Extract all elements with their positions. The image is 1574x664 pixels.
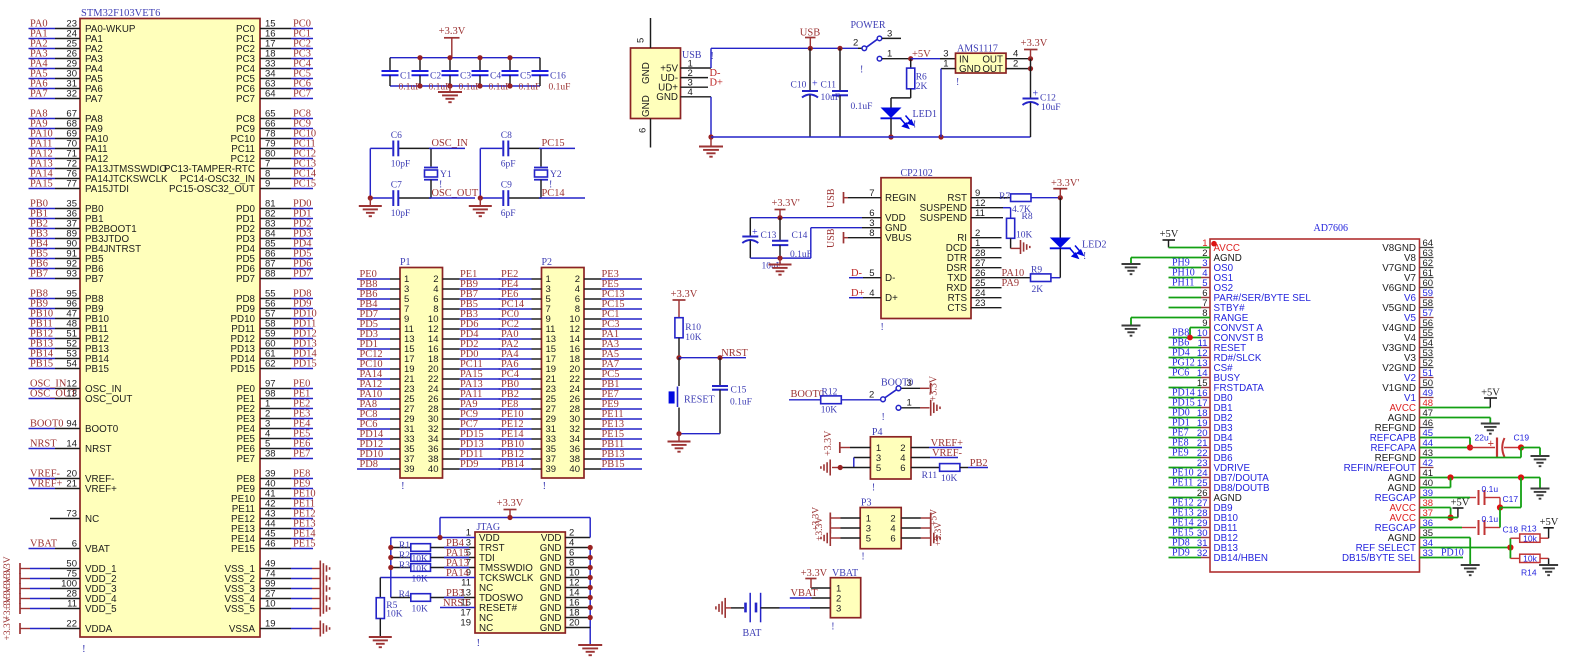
wire GND pin bbox=[565, 627, 590, 629]
svg-text:PB7: PB7 bbox=[85, 274, 104, 285]
svg-text:0.1uF: 0.1uF bbox=[851, 102, 873, 112]
wire frame of Y2 oscillator bbox=[479, 148, 481, 198]
pin PD15 / wire PD15 (pin 62) bbox=[260, 368, 291, 370]
power +3.3V / pin VDDA (pin 22) bbox=[20, 628, 30, 630]
svg-text:VBUS: VBUS bbox=[885, 233, 912, 244]
svg-text:USB: USB bbox=[826, 228, 837, 248]
pin 34 wire PE15 bbox=[584, 438, 601, 440]
svg-text:R10: R10 bbox=[685, 323, 701, 333]
pin 28 wire PA9 bbox=[443, 408, 460, 410]
capacitor C9 6pF bbox=[502, 190, 504, 206]
svg-text:Y2: Y2 bbox=[550, 170, 562, 180]
pin 25 wire PB2 bbox=[499, 398, 532, 400]
resistor R1 10K bbox=[391, 547, 411, 549]
IC U3 CP2102 body bbox=[881, 178, 971, 319]
resistor R6 2K bbox=[910, 59, 912, 68]
pin 5 wire PB6 bbox=[357, 298, 390, 300]
ground / pin VSS_1 (pin 49) bbox=[260, 568, 291, 570]
svg-text:PE15: PE15 bbox=[231, 544, 256, 555]
wire RTS pin24 stub bbox=[971, 297, 1002, 299]
pushbutton RESET bbox=[678, 358, 680, 386]
pin 11 wire PD5 bbox=[357, 328, 390, 330]
svg-text:5: 5 bbox=[876, 463, 881, 474]
pin PA9 / wire PA9 (pin 68) bbox=[29, 128, 56, 130]
svg-text:+3.3V': +3.3V' bbox=[1051, 178, 1079, 189]
svg-text:PB7: PB7 bbox=[30, 269, 48, 280]
capacitor C15 0.1uF bbox=[719, 358, 721, 386]
svg-text:+3.3V: +3.3V bbox=[671, 289, 698, 300]
net label VREF- P4 pin4 bbox=[911, 457, 930, 459]
svg-text:0.1uF: 0.1uF bbox=[549, 83, 571, 93]
ground / pin VSS_4 (pin 27) bbox=[260, 598, 291, 600]
svg-text:5: 5 bbox=[636, 38, 647, 43]
svg-text:6: 6 bbox=[638, 128, 649, 133]
resistor R12 10K bbox=[821, 396, 842, 404]
pin 1 wire PE0 bbox=[357, 278, 390, 280]
svg-text:6: 6 bbox=[72, 539, 77, 550]
svg-text:0.1u: 0.1u bbox=[1482, 514, 1499, 524]
pin PA3 / wire PA3 (pin 26) bbox=[29, 58, 56, 60]
pin PD10 / wire PD10 (pin 57) bbox=[260, 318, 291, 320]
pin PC13-TAMPER-RTC / wire PC13 (pin 7) bbox=[260, 168, 291, 170]
wire P3 right bbox=[901, 537, 921, 539]
svg-text:!: ! bbox=[861, 552, 864, 563]
svg-text:PE9: PE9 bbox=[1172, 448, 1189, 459]
pin PE14 / wire PE14 (pin 45) bbox=[260, 538, 291, 540]
capacitor C16 0.1uF bbox=[539, 58, 541, 71]
pin PD3 / wire PD3 (pin 84) bbox=[260, 238, 291, 240]
svg-text:11: 11 bbox=[67, 599, 77, 610]
pin PB5 / wire PB5 (pin 91) bbox=[29, 258, 56, 260]
pin NC / wire NC (pin 73) bbox=[50, 518, 80, 520]
pin PD0 / wire PD0 (pin 81) bbox=[260, 208, 291, 210]
wire GND pin bbox=[565, 587, 590, 589]
svg-text:19: 19 bbox=[460, 618, 471, 629]
connector USB body bbox=[631, 48, 681, 119]
svg-text:+5V: +5V bbox=[1451, 498, 1470, 509]
pin PA12 / wire PA12 (pin 71) bbox=[29, 158, 56, 160]
svg-text:PD9: PD9 bbox=[1172, 548, 1190, 559]
pin PB7 / wire PB7 (pin 93) bbox=[29, 278, 56, 280]
pin 20 wire PC11 bbox=[443, 368, 460, 370]
wire OUT column bbox=[1030, 59, 1032, 99]
svg-text:VDDA: VDDA bbox=[85, 624, 113, 635]
svg-text:40: 40 bbox=[569, 464, 580, 475]
wire AVCC pin38 to +5V bbox=[1420, 507, 1451, 509]
pin 15 wire PA2 bbox=[499, 348, 532, 350]
pin PA0-WKUP / wire PA0 (pin 23) bbox=[29, 28, 56, 30]
red pin stubs AD7606 right side bbox=[1420, 407, 1429, 409]
wire GND pin3 bbox=[810, 228, 812, 258]
capacitor C18 0.1u bbox=[1420, 527, 1463, 529]
svg-text:10K: 10K bbox=[412, 575, 429, 585]
pin 21 wire PA14 bbox=[357, 378, 390, 380]
svg-text:OUT: OUT bbox=[982, 64, 1003, 75]
svg-text:!: ! bbox=[860, 65, 863, 76]
wire RANGE pin8 to ground bbox=[1131, 317, 1210, 319]
resistor R3 10K bbox=[391, 567, 411, 569]
pin 4 wire PE5 bbox=[584, 288, 601, 290]
pin 13 wire PA0 bbox=[499, 338, 532, 340]
svg-text:!: ! bbox=[1083, 251, 1086, 262]
svg-text:!: ! bbox=[872, 483, 875, 494]
svg-text:+5V: +5V bbox=[1160, 229, 1179, 240]
pin 9 wire PD7 bbox=[357, 318, 390, 320]
svg-text:94: 94 bbox=[66, 419, 77, 430]
svg-text:GND: GND bbox=[656, 92, 678, 103]
pin PA6 / wire PA6 (pin 31) bbox=[29, 88, 56, 90]
pin 4 wire PB9 bbox=[443, 288, 460, 290]
svg-text:PA15: PA15 bbox=[30, 179, 53, 190]
svg-text:R7: R7 bbox=[999, 192, 1010, 202]
svg-text:RESET: RESET bbox=[684, 395, 715, 406]
pin 28 wire PE9 bbox=[584, 408, 601, 410]
pin 10 wire PB3 bbox=[443, 318, 460, 320]
wire P3 left bbox=[831, 517, 841, 519]
pin PD6 / wire PD6 (pin 87) bbox=[260, 268, 291, 270]
svg-text:10K: 10K bbox=[412, 605, 429, 615]
svg-text:!: ! bbox=[401, 480, 405, 492]
wire SUSPEND pin12 to R8 bbox=[971, 207, 1003, 209]
svg-text:C8: C8 bbox=[501, 131, 512, 141]
pin 31 wire PC6 bbox=[357, 428, 390, 430]
wire REFGND pin43 bbox=[1420, 457, 1522, 459]
pin PA2 / wire PA2 (pin 25) bbox=[29, 48, 56, 50]
svg-text:!: ! bbox=[543, 480, 547, 492]
svg-text:10K: 10K bbox=[412, 565, 429, 575]
pin PA1 / wire PA1 (pin 24) bbox=[29, 38, 56, 40]
svg-text:VSS_5: VSS_5 bbox=[224, 604, 255, 615]
pin PE11 / wire PE11 (pin 42) bbox=[260, 508, 291, 510]
ground P3 pin5 bbox=[829, 530, 831, 546]
USB shell pin 5 bbox=[650, 18, 652, 48]
svg-text:PC7: PC7 bbox=[236, 94, 255, 105]
svg-text:+3.3V: +3.3V bbox=[3, 616, 13, 640]
resistor R5 10K bbox=[379, 578, 381, 598]
wire VDD pin2 to +3.3V bus bbox=[565, 537, 590, 539]
pin PD12 / wire PD12 (pin 59) bbox=[260, 338, 291, 340]
wire P3 right bbox=[901, 517, 921, 519]
svg-text:PD8: PD8 bbox=[360, 459, 378, 470]
pin 2 wire PE1 bbox=[443, 278, 460, 280]
pin 3 wire PE4 bbox=[499, 288, 532, 290]
pin 35 wire PD12 bbox=[357, 448, 390, 450]
svg-text:1: 1 bbox=[887, 49, 892, 60]
svg-text:PA7: PA7 bbox=[30, 89, 48, 100]
pin PD2 / wire PD2 (pin 83) bbox=[260, 228, 291, 230]
pin PB15 / wire PB15 (pin 54) bbox=[29, 368, 56, 370]
svg-text:R8: R8 bbox=[1022, 212, 1033, 222]
wire USB GND bbox=[681, 96, 712, 98]
svg-text:CTS: CTS bbox=[947, 303, 967, 314]
wire P3 left bbox=[831, 527, 841, 529]
svg-text:9: 9 bbox=[265, 179, 270, 190]
wire P3 left bbox=[831, 537, 841, 539]
svg-text:2: 2 bbox=[1013, 58, 1018, 69]
capacitor C5 0.1uF bbox=[509, 58, 511, 71]
svg-text:1: 1 bbox=[907, 398, 912, 409]
wire VDD bus bbox=[750, 217, 862, 219]
net label VREF+ P4 pin2 bbox=[911, 447, 929, 449]
pin PC14-OSC32_IN / wire PC14 (pin 8) bbox=[260, 178, 291, 180]
svg-text:73: 73 bbox=[66, 509, 77, 520]
pin PE4 / wire PE4 (pin 3) bbox=[260, 428, 291, 430]
pin PA11 / wire PA11 (pin 70) bbox=[29, 148, 56, 150]
capacitor C8 6pF bbox=[502, 141, 504, 157]
svg-text:+: + bbox=[812, 79, 818, 90]
pin 24 wire PB1 bbox=[584, 388, 601, 390]
wire CONVST A pin9 join PB8 bbox=[1190, 327, 1210, 329]
pin 18 wire PA5 bbox=[584, 358, 601, 360]
pin BOOT0 / wire BOOT0 (pin 94) bbox=[29, 428, 56, 430]
pin 24 wire PA13 bbox=[443, 388, 460, 390]
wire USB +5V bbox=[681, 67, 712, 69]
capacitor C3 0.1uF bbox=[449, 58, 451, 71]
pin 12 wire PD6 bbox=[443, 328, 460, 330]
pin stubs AD7606 right side unwired pins bbox=[1420, 247, 1434, 249]
ground JTAG bbox=[578, 644, 602, 646]
pin 31 wire PE12 bbox=[499, 428, 532, 430]
pin PD8 / wire PD8 (pin 55) bbox=[260, 298, 291, 300]
svg-text:PB2: PB2 bbox=[970, 458, 988, 469]
wire switch pin1 to +5V bbox=[882, 58, 911, 60]
wire GND pin bbox=[565, 557, 590, 559]
svg-text:39: 39 bbox=[546, 464, 557, 475]
capacitor C11 0.1uF bbox=[839, 48, 841, 91]
pin PE13 / wire PE13 (pin 44) bbox=[260, 528, 291, 530]
svg-text:3: 3 bbox=[836, 603, 841, 614]
svg-text:C19: C19 bbox=[1514, 433, 1530, 443]
pin PC10 / wire PC10 (pin 78) bbox=[260, 138, 291, 140]
svg-text:C4: C4 bbox=[490, 72, 501, 82]
wire AGND pin40 bbox=[1420, 487, 1451, 489]
svg-text:40: 40 bbox=[428, 464, 439, 475]
svg-text:PB15: PB15 bbox=[30, 359, 53, 370]
svg-text:0.1uF: 0.1uF bbox=[459, 83, 481, 93]
svg-text:PC15: PC15 bbox=[542, 138, 565, 149]
svg-text:D+: D+ bbox=[710, 78, 724, 89]
wire switch pin3 to +3.3V bbox=[902, 387, 921, 389]
svg-text:STM32F103VET6: STM32F103VET6 bbox=[81, 8, 160, 19]
pin 7 wire PC14 bbox=[499, 308, 532, 310]
wire R12 to switch bbox=[841, 399, 880, 401]
svg-text:77: 77 bbox=[66, 179, 77, 190]
pin 38 wire PD11 bbox=[443, 458, 460, 460]
pin PE10 / wire PE10 (pin 41) bbox=[260, 498, 291, 500]
pin 33 wire PD14 bbox=[357, 438, 390, 440]
svg-text:VDD_5: VDD_5 bbox=[85, 604, 117, 615]
svg-text:+3.3V: +3.3V bbox=[497, 498, 524, 509]
svg-text:GND: GND bbox=[959, 64, 981, 75]
pin PC9 / wire PC9 (pin 66) bbox=[260, 128, 291, 130]
svg-text:C11: C11 bbox=[821, 81, 837, 91]
svg-text:BOOT0: BOOT0 bbox=[791, 389, 824, 400]
svg-text:R11: R11 bbox=[922, 471, 938, 481]
capacitor C17 0.1u bbox=[1420, 497, 1471, 499]
connector P2 body bbox=[542, 268, 585, 479]
power +5V port above R13 bbox=[1548, 528, 1550, 538]
capacitor C1 0.1uF bbox=[389, 58, 391, 71]
svg-text:+3.3V: +3.3V bbox=[934, 522, 944, 546]
svg-text:GND: GND bbox=[641, 62, 652, 84]
ground / pin VSSA (pin 19) bbox=[260, 628, 291, 630]
svg-text:PA15JTDI: PA15JTDI bbox=[85, 184, 129, 195]
svg-text:C17: C17 bbox=[1503, 494, 1519, 504]
pin 6 wire PB7 bbox=[443, 298, 460, 300]
pin PD5 / wire PD5 (pin 86) bbox=[260, 258, 291, 260]
pin PB14 / wire PB14 (pin 53) bbox=[29, 358, 56, 360]
pin PE15 / wire PE15 (pin 46) bbox=[260, 548, 291, 550]
pin PB9 / wire PB9 (pin 96) bbox=[29, 308, 56, 310]
wire AGND pin2 to ground bbox=[1131, 257, 1210, 259]
pin 7 wire PB4 bbox=[357, 308, 390, 310]
svg-text:P2: P2 bbox=[542, 257, 553, 268]
crystal Y1 bbox=[430, 148, 432, 166]
svg-text:CP2102: CP2102 bbox=[901, 168, 933, 179]
wire DB15/BYTE SEL pin33 / net PD10 bbox=[1420, 557, 1464, 559]
pin PC4 / wire PC4 (pin 33) bbox=[260, 68, 291, 70]
svg-text:R13: R13 bbox=[1521, 524, 1537, 534]
power +3.3V / pin VDD_1 (pin 50) bbox=[20, 568, 30, 570]
svg-text:PC6: PC6 bbox=[1172, 368, 1189, 379]
svg-text:0.1uF: 0.1uF bbox=[429, 83, 451, 93]
pin 33 wire PE14 bbox=[499, 438, 532, 440]
power +5V port P3 pin2 bbox=[930, 513, 932, 524]
svg-text:P3: P3 bbox=[861, 498, 872, 509]
pin 35 wire PB10 bbox=[499, 448, 532, 450]
pin PC7 / wire PC7 (pin 64) bbox=[260, 98, 291, 100]
svg-text:PB15: PB15 bbox=[85, 364, 110, 375]
svg-text:10K: 10K bbox=[386, 610, 403, 620]
wire AGND pin41 bbox=[1420, 477, 1541, 479]
wire +5V rail bbox=[711, 47, 858, 49]
svg-text:46: 46 bbox=[265, 539, 276, 550]
junction and ground bbox=[368, 195, 373, 200]
pin 32 wire PC7 bbox=[443, 428, 460, 430]
svg-text:OSC_IN: OSC_IN bbox=[432, 138, 469, 149]
svg-text:C1: C1 bbox=[400, 72, 411, 82]
svg-text:VREF-: VREF- bbox=[932, 448, 963, 459]
pin PE1 / wire PE1 (pin 98) bbox=[260, 398, 291, 400]
pin PA10 / wire PA10 (pin 69) bbox=[29, 138, 56, 140]
svg-text:10: 10 bbox=[265, 599, 276, 610]
pin PA15JTDI / wire PA15 (pin 77) bbox=[29, 188, 56, 190]
regulator U2 AMS1117 body bbox=[956, 53, 1007, 73]
crystal Y2 bbox=[540, 148, 542, 166]
power +3.3V port P4 pin1 bbox=[840, 447, 850, 449]
pin PC0 / wire PC0 (pin 15) bbox=[260, 28, 291, 30]
wire/net D- bbox=[681, 77, 709, 79]
svg-text:39: 39 bbox=[404, 464, 415, 475]
pin PC5 / wire PC5 (pin 34) bbox=[260, 78, 291, 80]
pin 1 wire PE2 bbox=[499, 278, 532, 280]
svg-text:+: + bbox=[1033, 89, 1039, 100]
svg-text:PE15: PE15 bbox=[293, 539, 316, 550]
wire switch pin1 to ground bbox=[902, 407, 921, 409]
wire/net D+ bbox=[681, 86, 709, 88]
svg-text:2: 2 bbox=[869, 390, 874, 401]
power +3.3V / pin VDD_3 (pin 100) bbox=[20, 588, 30, 590]
capacitor C14 0.1uF bbox=[779, 218, 781, 241]
wire CTS pin23 stub bbox=[971, 307, 1002, 309]
svg-text:38: 38 bbox=[265, 449, 276, 460]
junction bbox=[507, 55, 512, 60]
power +3.3V / pin VDD_5 (pin 11) bbox=[20, 608, 30, 610]
IC U4 AD7606 body bbox=[1210, 239, 1420, 572]
pin PB6 / wire PB6 (pin 92) bbox=[29, 268, 56, 270]
wire DCD pin1 stub bbox=[971, 247, 1002, 249]
svg-text:14: 14 bbox=[66, 439, 77, 450]
pin 14 wire PA1 bbox=[584, 338, 601, 340]
svg-text:PC7: PC7 bbox=[293, 89, 311, 100]
svg-text:0.1uF: 0.1uF bbox=[399, 83, 421, 93]
wire REFCAPB pin45 bbox=[1420, 437, 1471, 439]
svg-text:10K: 10K bbox=[685, 333, 702, 343]
svg-text:!: ! bbox=[882, 412, 885, 423]
svg-text:NRST: NRST bbox=[85, 444, 112, 455]
svg-text:GND: GND bbox=[641, 95, 652, 117]
pin 16 wire PA3 bbox=[584, 348, 601, 350]
pin 39 wire PD8 bbox=[357, 468, 390, 470]
pin 23 wire PA12 bbox=[357, 388, 390, 390]
svg-text:R9: R9 bbox=[1031, 265, 1042, 275]
connector VBAT body bbox=[830, 578, 860, 618]
pin 34 wire PD15 bbox=[443, 438, 460, 440]
pin 5 wire PE6 bbox=[499, 298, 532, 300]
resistor R9 2K bbox=[1031, 274, 1051, 282]
svg-text:DB15/BYTE SEL: DB15/BYTE SEL bbox=[1342, 553, 1417, 564]
net label PB2 bbox=[960, 467, 968, 469]
wire AGND pin35 to ground bbox=[1420, 537, 1471, 539]
pin 27 wire PE8 bbox=[499, 408, 532, 410]
power +3.3V port P3 pin4 bbox=[930, 523, 932, 534]
pin 19 wire PC10 bbox=[357, 368, 390, 370]
ground below R5 bbox=[369, 636, 392, 638]
resistor R8 10K bbox=[1007, 218, 1015, 238]
svg-text:93: 93 bbox=[66, 269, 77, 280]
svg-text:13: 13 bbox=[66, 389, 77, 400]
pin PA5 / wire PA5 (pin 30) bbox=[29, 78, 56, 80]
svg-text:0.1uF: 0.1uF bbox=[519, 83, 541, 93]
ground / pin VSS_5 (pin 10) bbox=[260, 608, 291, 610]
svg-text:+: + bbox=[752, 227, 758, 238]
wire GND pin bbox=[565, 597, 590, 599]
pin PB12 / wire PB12 (pin 51) bbox=[29, 338, 56, 340]
svg-text:PE7: PE7 bbox=[236, 454, 255, 465]
pin PE3 / wire PE3 (pin 2) bbox=[260, 418, 291, 420]
svg-text:21: 21 bbox=[66, 479, 77, 490]
pin 16 wire PD2 bbox=[443, 348, 460, 350]
pin 32 wire PE13 bbox=[584, 428, 601, 430]
svg-text:PH11: PH11 bbox=[1172, 278, 1194, 289]
pin 38 wire PB13 bbox=[584, 458, 601, 460]
svg-text:!: ! bbox=[956, 77, 959, 88]
svg-text:VREF+: VREF+ bbox=[30, 479, 63, 490]
pin PD4 / wire PD4 (pin 85) bbox=[260, 248, 291, 250]
pin NRST / wire NRST (pin 14) bbox=[29, 448, 56, 450]
svg-text:2K: 2K bbox=[1032, 285, 1044, 295]
junction bbox=[417, 55, 422, 60]
pin 40 wire PD9 bbox=[443, 468, 460, 470]
svg-text:22u: 22u bbox=[1475, 433, 1489, 443]
pin 36 wire PB11 bbox=[584, 448, 601, 450]
wire top bus of C1-C5 bbox=[390, 57, 540, 59]
svg-text:VREF+: VREF+ bbox=[85, 484, 117, 495]
svg-text:0.1uF: 0.1uF bbox=[730, 398, 752, 408]
pin VREF- / wire VREF- (pin 20) bbox=[29, 478, 56, 480]
USB shell pin 6 bbox=[650, 119, 652, 148]
svg-text:SUSPEND: SUSPEND bbox=[920, 213, 967, 224]
